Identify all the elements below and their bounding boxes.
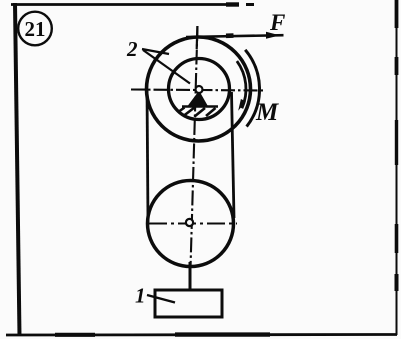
lower pulley circle — [148, 181, 234, 267]
thick dash on F line — [226, 33, 234, 38]
moment M inner arc — [237, 61, 246, 108]
frame left border — [15, 3, 20, 336]
horizontal centerline upper pulley — [131, 90, 266, 91]
force F cord line — [186, 35, 284, 37]
frame right border blob 5 — [395, 274, 399, 291]
moment M arrowhead — [238, 99, 246, 111]
svg-text:M: M — [255, 99, 279, 126]
vertical centerline (dash-dot through both pulleys) — [191, 26, 198, 268]
frame right border blob 3 — [395, 120, 398, 165]
frame top border thick blob — [226, 2, 239, 6]
frame right border — [396, 0, 398, 335]
hatch 2 — [184, 108, 195, 116]
problem number badge circle 21 — [18, 12, 52, 46]
hatch 4 — [206, 108, 216, 116]
pulley 2 outer circle — [147, 37, 251, 141]
svg-text:21: 21 — [25, 17, 46, 41]
frame top border — [11, 3, 238, 6]
frame right border blob 1 — [395, 0, 399, 28]
vertical centerline solid top segment — [196, 26, 199, 49]
leader from 1 to block — [147, 295, 175, 303]
horizontal centerline lower pulley — [149, 222, 237, 224]
frame right border blob 4 — [395, 224, 399, 253]
svg-text:1: 1 — [135, 284, 146, 308]
wire: right belt cord — [232, 92, 235, 218]
hatch 1 — [178, 108, 185, 113]
lower pulley hub circle — [186, 219, 193, 226]
frame top border end dash — [246, 3, 254, 6]
pin support ground line — [182, 105, 218, 108]
frame right border blob 2 — [395, 57, 399, 75]
leader from 2 to outer circle — [142, 49, 169, 54]
moment M outer arc — [245, 50, 259, 127]
svg-text:F: F — [269, 10, 285, 35]
svg-text:2: 2 — [126, 37, 138, 61]
frame bottom border — [6, 333, 397, 336]
frame bottom border thick segment 2 — [175, 332, 270, 336]
pin support triangle — [189, 92, 208, 106]
hanger rod — [189, 262, 192, 291]
force F arrowhead — [266, 32, 280, 39]
pin hinge circle — [196, 86, 203, 93]
pulley 2 inner circle — [169, 59, 230, 120]
hatch 3 — [195, 108, 206, 117]
block 1 rectangle — [155, 290, 222, 317]
leader from 2 to inner circle — [143, 50, 190, 84]
frame bottom border thick segment 1 — [55, 333, 95, 337]
wire: left belt cord — [147, 89, 148, 222]
